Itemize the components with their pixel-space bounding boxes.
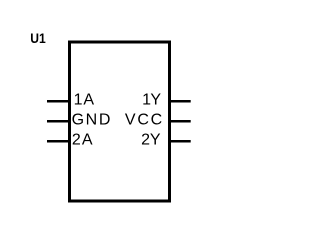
svg-text:VCC: VCC — [125, 111, 162, 128]
svg-text:2A: 2A — [72, 131, 93, 148]
IC U1 body — [70, 42, 170, 201]
pin 2A wire — [47, 140, 68, 143]
pin 1Y wire — [171, 100, 191, 103]
svg-text:1Y: 1Y — [142, 91, 161, 108]
svg-text:GND: GND — [72, 111, 111, 128]
svg-text:U1: U1 — [30, 30, 46, 46]
pin 2Y wire — [171, 140, 191, 143]
svg-text:1A: 1A — [74, 91, 95, 108]
pin VCC wire — [171, 120, 191, 123]
pin GND wire — [47, 120, 68, 123]
pin 1A wire — [47, 100, 68, 103]
svg-text:2Y: 2Y — [141, 131, 161, 148]
